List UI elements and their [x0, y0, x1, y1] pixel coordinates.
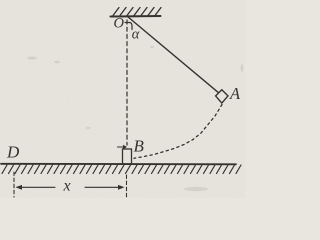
- block A (rotated square): [216, 90, 228, 103]
- scan smudges: [27, 46, 243, 191]
- block B: [123, 149, 132, 164]
- ground line: [1, 163, 236, 166]
- vertical dashed line from O: [126, 20, 128, 145]
- dashed trajectory arc A to B: [134, 105, 222, 159]
- dashed vertical below B: [126, 175, 128, 197]
- ground hatching: [2, 165, 241, 174]
- arrow at B: [118, 145, 128, 149]
- ceiling hatching: [113, 8, 161, 16]
- measure arrow left: [16, 185, 56, 190]
- ceiling line: [111, 15, 161, 18]
- rod O to A: [128, 17, 219, 93]
- dashed vertical below D: [13, 172, 15, 197]
- measure arrow right: [85, 185, 125, 190]
- angle mark at O: [125, 23, 132, 30]
- scan grain overlay: [0, 0, 245, 198]
